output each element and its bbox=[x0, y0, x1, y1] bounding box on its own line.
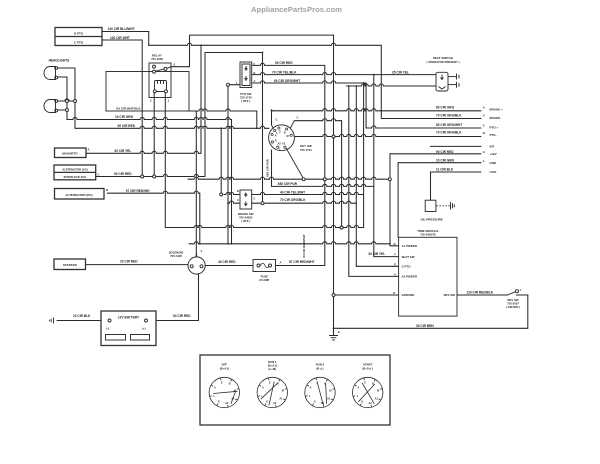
svg-text:12V BATTERY: 12V BATTERY bbox=[118, 315, 140, 319]
svg-text:(B+L): (B+L) bbox=[316, 366, 323, 370]
svg-text:(L+M): (L+M) bbox=[269, 367, 277, 371]
svg-text:40 CIR RED: 40 CIR RED bbox=[218, 260, 236, 264]
svg-text:PTO -: PTO - bbox=[490, 133, 498, 137]
svg-text:M: M bbox=[234, 390, 236, 393]
svg-text:A: A bbox=[483, 114, 485, 118]
svg-text:M: M bbox=[282, 390, 284, 393]
svg-text:BRAKE +: BRAKE + bbox=[490, 108, 504, 112]
svg-text:97 CIR RED/WH: 97 CIR RED/WH bbox=[126, 189, 150, 193]
svg-text:STARTER: STARTER bbox=[63, 263, 78, 267]
svg-text:90 CIR RED: 90 CIR RED bbox=[275, 61, 293, 65]
svg-text:94 CIR RED/WHT: 94 CIR RED/WHT bbox=[302, 234, 306, 258]
svg-text:30 CIR YEL: 30 CIR YEL bbox=[114, 149, 131, 153]
svg-text:(B+S+L): (B+S+L) bbox=[362, 366, 373, 370]
svg-text:ALTERNATOR (AC): ALTERNATOR (AC) bbox=[62, 168, 88, 172]
svg-text:70 CIR ORG/BLK: 70 CIR ORG/BLK bbox=[436, 114, 462, 118]
svg-text:30 CIR YEL: 30 CIR YEL bbox=[368, 252, 385, 256]
svg-text:C: C bbox=[98, 172, 100, 176]
svg-text:A: A bbox=[394, 272, 396, 276]
svg-text:A: A bbox=[280, 261, 282, 265]
svg-text:140 CIR BLU/WHT: 140 CIR BLU/WHT bbox=[108, 27, 135, 31]
svg-text:650 CIR PUR: 650 CIR PUR bbox=[278, 182, 298, 186]
svg-text:(B+A1): (B+A1) bbox=[220, 366, 229, 370]
svg-text:90 CIR RED: 90 CIR RED bbox=[114, 172, 132, 176]
svg-text:( ON PAD ): ( ON PAD ) bbox=[506, 305, 520, 309]
svg-text:E: E bbox=[338, 330, 340, 334]
svg-text:A1 POWER: A1 POWER bbox=[402, 244, 418, 248]
svg-text:B: B bbox=[106, 188, 108, 192]
svg-text:97 CIR RED/WHT: 97 CIR RED/WHT bbox=[289, 260, 315, 264]
svg-text:B: B bbox=[254, 71, 256, 75]
svg-text:+12V: +12V bbox=[490, 152, 497, 156]
svg-text:ALTERNATOR (DC): ALTERNATOR (DC) bbox=[65, 193, 92, 197]
svg-text:94 CIR RED: 94 CIR RED bbox=[173, 314, 191, 318]
svg-text:B: B bbox=[324, 382, 326, 385]
svg-text:70 CIR ORG/BLK: 70 CIR ORG/BLK bbox=[280, 198, 306, 202]
svg-text:C-PTO: C-PTO bbox=[402, 265, 412, 269]
svg-text:A: A bbox=[262, 387, 264, 390]
svg-text:M: M bbox=[329, 390, 331, 393]
svg-text:( OPERATOR PRESENT ): ( OPERATOR PRESENT ) bbox=[427, 60, 460, 64]
svg-text:B: B bbox=[277, 382, 279, 385]
svg-text:A: A bbox=[237, 198, 239, 202]
svg-text:INTERLOCK SOL: INTERLOCK SOL bbox=[64, 175, 87, 179]
svg-text:B: B bbox=[237, 189, 239, 193]
svg-text:B: B bbox=[372, 382, 374, 385]
svg-text:M: M bbox=[286, 134, 288, 138]
svg-text:A1: A1 bbox=[282, 142, 286, 146]
svg-text:110 CIR RED/BLK: 110 CIR RED/BLK bbox=[467, 290, 494, 294]
svg-text:B: B bbox=[284, 130, 286, 134]
svg-text:COIL: COIL bbox=[490, 170, 497, 174]
svg-text:( OFF ): ( OFF ) bbox=[241, 219, 250, 223]
svg-text:AppliancePartsPros.com: AppliancePartsPros.com bbox=[251, 5, 342, 14]
svg-text:GND: GND bbox=[490, 161, 498, 165]
svg-text:C PTO: C PTO bbox=[74, 41, 84, 45]
svg-text:H: H bbox=[483, 150, 485, 154]
svg-text:(+): (+) bbox=[142, 327, 146, 331]
svg-text:B: B bbox=[394, 242, 396, 246]
svg-text:650 CIR PUR: 650 CIR PUR bbox=[265, 158, 269, 176]
svg-text:E: E bbox=[394, 262, 396, 266]
svg-text:O PTO: O PTO bbox=[74, 32, 84, 36]
svg-text:C: C bbox=[483, 123, 485, 127]
svg-text:BRAKE -: BRAKE - bbox=[490, 116, 503, 120]
svg-text:725-1648: 725-1648 bbox=[151, 57, 163, 61]
svg-text:(-): (-) bbox=[106, 327, 109, 331]
svg-text:MAGNETO: MAGNETO bbox=[62, 152, 78, 156]
svg-text:70 CIR ORG/BLK: 70 CIR ORG/BLK bbox=[436, 131, 462, 135]
svg-text:SEAT SW: SEAT SW bbox=[402, 255, 415, 259]
svg-text:G: G bbox=[218, 401, 220, 404]
svg-text:G: G bbox=[266, 401, 268, 404]
svg-text:A: A bbox=[88, 148, 90, 152]
svg-text:725-1426: 725-1426 bbox=[170, 254, 182, 258]
svg-text:80 CIR ORG/WHT: 80 CIR ORG/WHT bbox=[436, 123, 462, 127]
svg-text:OIL PRESSURE: OIL PRESSURE bbox=[421, 218, 443, 222]
svg-text:10 CIR BLK: 10 CIR BLK bbox=[73, 314, 91, 318]
svg-text:A2 POWER: A2 POWER bbox=[402, 275, 418, 279]
svg-text:C: C bbox=[276, 118, 278, 122]
svg-text:INT: INT bbox=[490, 144, 495, 148]
svg-text:A2: A2 bbox=[277, 142, 281, 146]
svg-text:S: S bbox=[279, 130, 281, 134]
svg-text:70 CIR YEL/BLK: 70 CIR YEL/BLK bbox=[272, 70, 297, 74]
svg-text:120 CIR WHT: 120 CIR WHT bbox=[110, 36, 130, 40]
svg-text:( OFF ): ( OFF ) bbox=[241, 99, 250, 103]
svg-text:A: A bbox=[483, 106, 485, 110]
svg-text:A: A bbox=[214, 387, 216, 390]
svg-text:B: B bbox=[483, 131, 485, 135]
svg-text:A: A bbox=[254, 79, 256, 83]
svg-text:G: G bbox=[314, 401, 316, 404]
svg-text:725-04227B: 725-04227B bbox=[420, 233, 435, 237]
svg-text:C: C bbox=[254, 197, 256, 201]
svg-text:20 AMP: 20 AMP bbox=[259, 278, 269, 282]
svg-text:G: G bbox=[361, 401, 363, 404]
svg-text:10 CIR GRN: 10 CIR GRN bbox=[436, 159, 455, 163]
svg-text:80 CIR ORG: 80 CIR ORG bbox=[436, 105, 455, 109]
svg-text:B: B bbox=[229, 382, 231, 385]
svg-text:M: M bbox=[377, 390, 379, 393]
svg-text:40 CIR YEL/WHT: 40 CIR YEL/WHT bbox=[280, 190, 305, 194]
svg-text:35 CIR YEL: 35 CIR YEL bbox=[392, 70, 409, 74]
svg-text:10 CIR GRN: 10 CIR GRN bbox=[115, 115, 134, 119]
svg-text:C: C bbox=[297, 116, 299, 120]
svg-text:GROUND: GROUND bbox=[402, 293, 415, 297]
svg-text:A: A bbox=[357, 387, 359, 390]
svg-text:11 CIR BLK: 11 CIR BLK bbox=[436, 167, 454, 171]
svg-text:60 CIR ORG/WHT: 60 CIR ORG/WHT bbox=[274, 79, 300, 83]
svg-text:20 CIR RED: 20 CIR RED bbox=[120, 260, 138, 264]
svg-text:90 CIR RED: 90 CIR RED bbox=[436, 150, 454, 154]
svg-text:D: D bbox=[393, 291, 395, 295]
svg-text:A: A bbox=[310, 387, 312, 390]
svg-text:90 CIR RED: 90 CIR RED bbox=[118, 124, 136, 128]
svg-text:30 CIR BRN: 30 CIR BRN bbox=[416, 324, 434, 328]
svg-text:PTO +: PTO + bbox=[490, 126, 499, 130]
svg-text:HEADLIGHTS: HEADLIGHTS bbox=[49, 58, 70, 62]
svg-text:G0 CIR WHT/BLK: G0 CIR WHT/BLK bbox=[116, 107, 141, 111]
svg-text:725-1741: 725-1741 bbox=[300, 148, 312, 152]
svg-text:REV SW: REV SW bbox=[444, 293, 456, 297]
